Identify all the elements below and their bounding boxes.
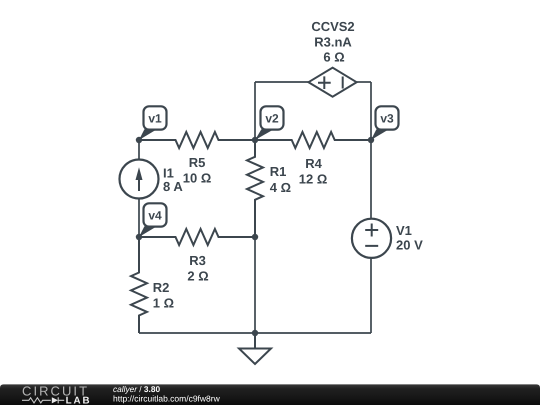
current source I1 (8 A)	[120, 140, 184, 237]
junction dot at node v3	[368, 137, 374, 143]
ground	[239, 333, 271, 364]
node flag v1	[139, 106, 167, 140]
wire top-left (v2 column to CCVS left tip)	[255, 81, 309, 83]
svg-text:1 Ω: 1 Ω	[153, 296, 174, 311]
svg-text:I1: I1	[163, 165, 174, 180]
svg-text:4 Ω: 4 Ω	[270, 180, 291, 195]
svg-text:R5: R5	[189, 155, 206, 170]
wire middle column lower (R3 junction down to ground rail)	[254, 237, 256, 333]
junction dot at node v1	[136, 137, 142, 143]
svg-text:v1: v1	[148, 111, 162, 125]
node flag v2	[255, 106, 284, 140]
svg-text:2 Ω: 2 Ω	[187, 268, 208, 283]
resistor R1 (4 Ohm) vertical between v2 and R3 row	[247, 140, 291, 237]
junction dot at ground rail	[252, 330, 258, 336]
svg-text:20 V: 20 V	[396, 237, 423, 252]
svg-text:CCVS2: CCVS2	[311, 19, 354, 34]
resistor R4 (12 Ohm) between v2 and v3	[255, 132, 371, 186]
svg-text:R4: R4	[305, 156, 322, 171]
resistor R2 (1 Ohm) vertical between v4 and bottom rail	[131, 237, 174, 333]
node flag v4	[139, 203, 167, 237]
svg-text:callyer / 3.80: callyer / 3.80	[113, 384, 160, 394]
junction dot at node v2	[252, 137, 258, 143]
wire v2 column upper (node v2 up to top rail)	[254, 82, 256, 140]
junction dot at R1/R3 junction	[252, 234, 258, 240]
svg-text:R2: R2	[153, 280, 170, 295]
svg-text:R1: R1	[270, 164, 287, 179]
wire top-right (CCVS right tip to v3 column)	[357, 81, 371, 83]
svg-text:v3: v3	[380, 111, 394, 125]
wire bottom rail	[139, 332, 371, 334]
svg-text:v2: v2	[265, 111, 279, 125]
footer bar	[0, 384, 540, 405]
svg-text:R3.nA: R3.nA	[314, 34, 352, 49]
svg-text:R3: R3	[189, 253, 206, 268]
svg-text:6 Ω: 6 Ω	[323, 49, 344, 64]
CCVS source CCVS2 (6 Ohm, R3.nA)	[309, 19, 357, 97]
voltage source V1 (20 V)	[352, 140, 423, 333]
node flag v3	[371, 106, 399, 140]
resistor R3 (2 Ohm) between v4 and middle column	[139, 229, 255, 283]
wire v3 column upper (top rail down to node v3)	[370, 82, 372, 140]
svg-text:V1: V1	[396, 223, 412, 238]
svg-text:http://circuitlab.com/c9fw8rw: http://circuitlab.com/c9fw8rw	[113, 394, 221, 404]
resistor R5 (10 Ohm) between v1 and v2	[139, 132, 255, 185]
junction dot at node v4	[136, 234, 142, 240]
svg-text:LAB: LAB	[66, 396, 92, 405]
svg-text:12 Ω: 12 Ω	[299, 171, 328, 186]
CircuitLab logo wordmark	[22, 384, 91, 405]
svg-text:10 Ω: 10 Ω	[183, 170, 212, 185]
svg-text:v4: v4	[148, 208, 162, 222]
svg-text:8 A: 8 A	[163, 179, 183, 194]
